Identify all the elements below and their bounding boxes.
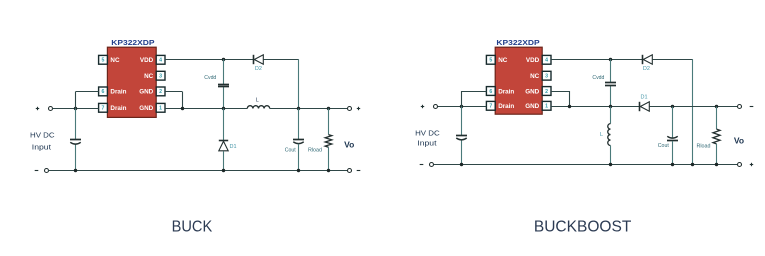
svg-text:6: 6 xyxy=(489,89,492,95)
svg-text:2: 2 xyxy=(545,89,548,95)
svg-text:3: 3 xyxy=(159,74,162,80)
svg-text:1: 1 xyxy=(545,104,548,110)
svg-text:L: L xyxy=(600,132,603,138)
svg-text:5: 5 xyxy=(102,58,105,64)
svg-text:KP322XDP: KP322XDP xyxy=(111,38,154,47)
svg-text:Cvdd: Cvdd xyxy=(592,75,604,81)
svg-text:Rload: Rload xyxy=(697,143,711,149)
svg-text:BUCKBOOST: BUCKBOOST xyxy=(534,219,632,236)
svg-text:GND: GND xyxy=(525,103,539,110)
svg-text:Input: Input xyxy=(417,141,436,148)
svg-text:GND: GND xyxy=(139,89,153,96)
svg-text:D1: D1 xyxy=(640,95,647,101)
svg-text:Input: Input xyxy=(32,145,51,152)
svg-text:HV DC: HV DC xyxy=(30,133,55,140)
svg-text:Drain: Drain xyxy=(498,103,514,110)
svg-text:GND: GND xyxy=(139,105,153,112)
svg-text:HV DC: HV DC xyxy=(415,131,440,138)
svg-text:Cout: Cout xyxy=(285,147,296,153)
svg-text:D2: D2 xyxy=(643,66,650,72)
svg-text:4: 4 xyxy=(159,58,162,64)
svg-text:D1: D1 xyxy=(229,144,236,150)
svg-text:2: 2 xyxy=(159,89,162,95)
svg-text:Vo: Vo xyxy=(734,136,744,146)
svg-text:BUCK: BUCK xyxy=(172,219,213,236)
svg-text:NC: NC xyxy=(498,57,508,64)
svg-text:NC: NC xyxy=(530,73,540,80)
svg-text:D2: D2 xyxy=(255,66,262,72)
svg-text:3: 3 xyxy=(545,74,548,80)
svg-text:7: 7 xyxy=(102,106,105,112)
svg-text:NC: NC xyxy=(110,57,120,64)
svg-text:6: 6 xyxy=(102,89,105,95)
svg-text:1: 1 xyxy=(159,106,162,112)
svg-text:4: 4 xyxy=(545,58,548,64)
svg-text:Vo: Vo xyxy=(344,140,354,150)
svg-text:5: 5 xyxy=(489,58,492,64)
svg-text:7: 7 xyxy=(489,104,492,110)
svg-text:Drain: Drain xyxy=(110,89,126,96)
svg-text:Cout: Cout xyxy=(658,143,669,149)
svg-text:VDD: VDD xyxy=(526,57,540,64)
svg-text:VDD: VDD xyxy=(140,57,154,64)
svg-text:L: L xyxy=(256,97,259,103)
svg-text:Rload: Rload xyxy=(308,148,322,154)
svg-text:GND: GND xyxy=(525,88,539,95)
svg-text:Cvdd: Cvdd xyxy=(204,75,216,81)
svg-text:Drain: Drain xyxy=(498,88,514,95)
svg-text:Drain: Drain xyxy=(110,105,126,112)
svg-text:NC: NC xyxy=(144,73,154,80)
svg-text:KP322XDP: KP322XDP xyxy=(496,38,539,47)
